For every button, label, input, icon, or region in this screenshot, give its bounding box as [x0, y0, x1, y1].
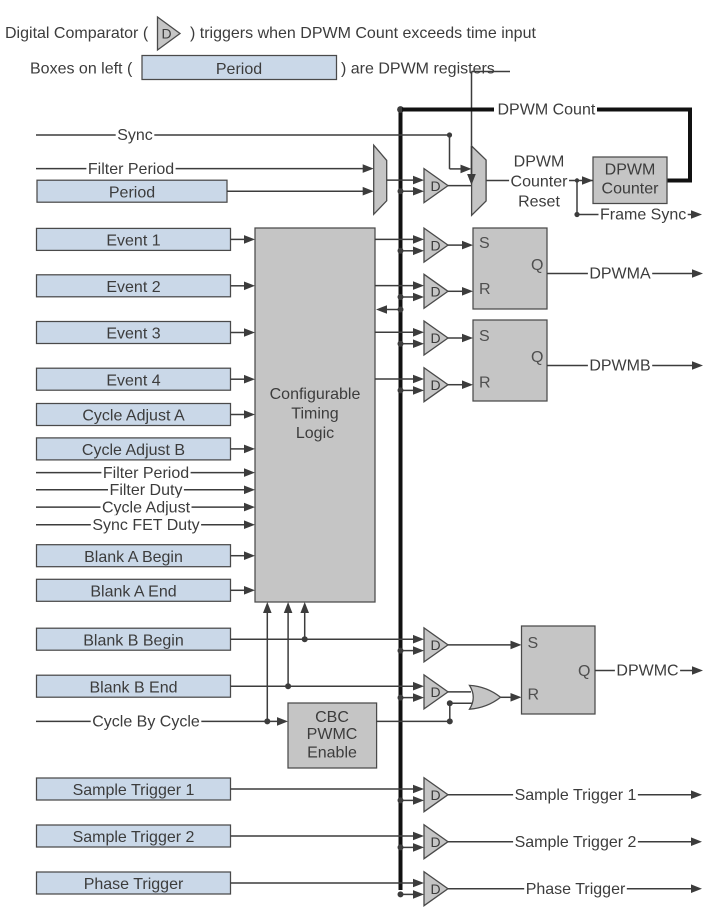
- svg-text:Sync FET Duty: Sync FET Duty: [92, 517, 199, 534]
- svg-text:Period: Period: [216, 61, 262, 78]
- svg-text:Q: Q: [578, 663, 590, 680]
- svg-text:D: D: [431, 237, 441, 253]
- svg-text:Blank B Begin: Blank B Begin: [83, 632, 184, 649]
- svg-text:Filter Period: Filter Period: [88, 161, 174, 178]
- svg-text:DPWM Count: DPWM Count: [498, 102, 596, 119]
- svg-text:D: D: [431, 787, 441, 803]
- svg-text:Configurable: Configurable: [270, 386, 361, 403]
- svg-text:Event 1: Event 1: [106, 233, 160, 250]
- svg-text:Cycle By Cycle: Cycle By Cycle: [92, 714, 200, 731]
- svg-text:S: S: [528, 635, 539, 652]
- svg-text:Sample Trigger 2: Sample Trigger 2: [73, 829, 195, 846]
- svg-text:Blank A Begin: Blank A Begin: [84, 549, 183, 566]
- svg-text:D: D: [431, 637, 441, 653]
- svg-text:D: D: [431, 834, 441, 850]
- svg-text:Q: Q: [531, 257, 543, 274]
- svg-text:Sample Trigger 1: Sample Trigger 1: [73, 782, 195, 799]
- svg-text:) triggers when DPWM Count exc: ) triggers when DPWM Count exceeds time …: [190, 25, 536, 42]
- svg-text:Filter Duty: Filter Duty: [110, 482, 183, 499]
- svg-text:Boxes on left (: Boxes on left (: [30, 61, 133, 78]
- svg-text:S: S: [479, 328, 490, 345]
- svg-text:Period: Period: [109, 184, 155, 201]
- svg-text:Event 2: Event 2: [106, 279, 160, 296]
- svg-text:Counter: Counter: [511, 174, 569, 191]
- svg-text:DPWMB: DPWMB: [589, 358, 650, 375]
- svg-text:Enable: Enable: [307, 744, 357, 761]
- svg-text:R: R: [479, 281, 491, 298]
- svg-text:DPWM: DPWM: [514, 154, 565, 171]
- svg-text:Sample Trigger 2: Sample Trigger 2: [515, 834, 637, 851]
- svg-text:Digital Comparator (: Digital Comparator (: [5, 25, 149, 42]
- svg-text:Sample Trigger 1: Sample Trigger 1: [515, 787, 637, 804]
- svg-text:D: D: [431, 284, 441, 300]
- svg-text:Blank A End: Blank A End: [90, 584, 176, 601]
- svg-text:D: D: [431, 377, 441, 393]
- svg-text:PWMC: PWMC: [307, 726, 358, 743]
- svg-text:D: D: [431, 684, 441, 700]
- svg-text:R: R: [479, 375, 491, 392]
- svg-text:D: D: [162, 26, 172, 42]
- svg-text:D: D: [431, 178, 441, 194]
- svg-text:Filter Period: Filter Period: [103, 465, 189, 482]
- svg-text:DPWMA: DPWMA: [589, 266, 651, 283]
- svg-text:Event 3: Event 3: [106, 326, 160, 343]
- svg-text:CBC: CBC: [315, 709, 349, 726]
- svg-text:Blank B End: Blank B End: [89, 679, 177, 696]
- svg-text:Cycle Adjust B: Cycle Adjust B: [82, 442, 185, 459]
- svg-text:Phase Trigger: Phase Trigger: [84, 876, 184, 893]
- svg-text:Q: Q: [531, 349, 543, 366]
- svg-text:D: D: [431, 881, 441, 897]
- svg-text:DPWMC: DPWMC: [616, 663, 678, 680]
- svg-text:Sync: Sync: [117, 127, 153, 144]
- svg-text:Frame Sync: Frame Sync: [600, 207, 686, 224]
- svg-text:Timing: Timing: [291, 406, 338, 423]
- svg-text:Cycle Adjust: Cycle Adjust: [102, 499, 191, 516]
- svg-text:Cycle Adjust A: Cycle Adjust A: [82, 408, 185, 425]
- svg-text:Counter: Counter: [602, 181, 660, 198]
- svg-text:S: S: [479, 235, 490, 252]
- svg-text:D: D: [431, 330, 441, 346]
- svg-text:Phase Trigger: Phase Trigger: [526, 881, 626, 898]
- svg-text:DPWM: DPWM: [605, 162, 656, 179]
- svg-text:Logic: Logic: [296, 425, 334, 442]
- svg-text:Event 4: Event 4: [106, 372, 160, 389]
- svg-text:Reset: Reset: [518, 194, 560, 211]
- svg-text:R: R: [528, 687, 540, 704]
